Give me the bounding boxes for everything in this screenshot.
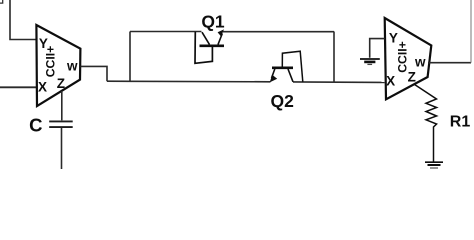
- svg-text:Q2: Q2: [271, 91, 295, 111]
- svg-text:X: X: [38, 80, 47, 95]
- svg-text:w: w: [414, 55, 426, 70]
- svg-text:w: w: [66, 58, 78, 73]
- svg-text:Q1: Q1: [201, 12, 225, 32]
- svg-text:R1: R1: [450, 114, 471, 131]
- svg-text:Z: Z: [57, 76, 65, 91]
- svg-text:X: X: [386, 73, 395, 88]
- svg-text:CCII+: CCII+: [395, 41, 409, 73]
- svg-text:CCII+: CCII+: [44, 46, 58, 78]
- svg-text:C: C: [29, 115, 42, 136]
